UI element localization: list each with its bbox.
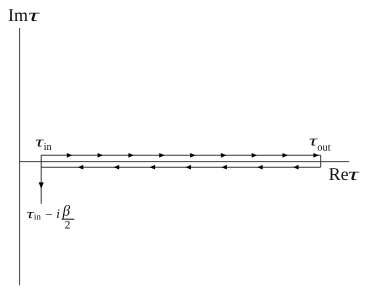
arrow on left vertical segment (downward) bbox=[39, 182, 44, 188]
svg-text:τ: τ bbox=[348, 164, 359, 184]
axis label Re tau bbox=[329, 164, 360, 184]
label tau_in - i beta/2 bbox=[27, 203, 75, 231]
svg-text:in: in bbox=[34, 212, 42, 222]
svg-text:β: β bbox=[62, 203, 71, 219]
left vertical segment down to tau_in - i beta/2 bbox=[40, 155, 42, 204]
svg-text:out: out bbox=[317, 142, 331, 153]
svg-text:in: in bbox=[44, 142, 53, 153]
arrows on upper contour (rightward) bbox=[67, 153, 319, 158]
Im axis (vertical) bbox=[19, 28, 21, 285]
svg-text:i: i bbox=[56, 206, 60, 221]
label tau_out bbox=[309, 134, 331, 154]
arrows on lower contour (leftward) bbox=[78, 165, 299, 170]
upper contour (forward branch) bbox=[41, 154, 321, 156]
label tau_in bbox=[35, 135, 52, 153]
svg-text:Re: Re bbox=[329, 164, 349, 184]
svg-text:Im: Im bbox=[8, 5, 28, 25]
axis label Im tau bbox=[8, 5, 40, 25]
svg-text:τ: τ bbox=[28, 5, 40, 25]
svg-text:−: − bbox=[45, 207, 52, 222]
right connector at tau_out bbox=[320, 155, 322, 167]
svg-text:2: 2 bbox=[65, 219, 71, 231]
lower contour (return branch) bbox=[41, 166, 321, 168]
Re axis (horizontal) bbox=[20, 161, 350, 163]
